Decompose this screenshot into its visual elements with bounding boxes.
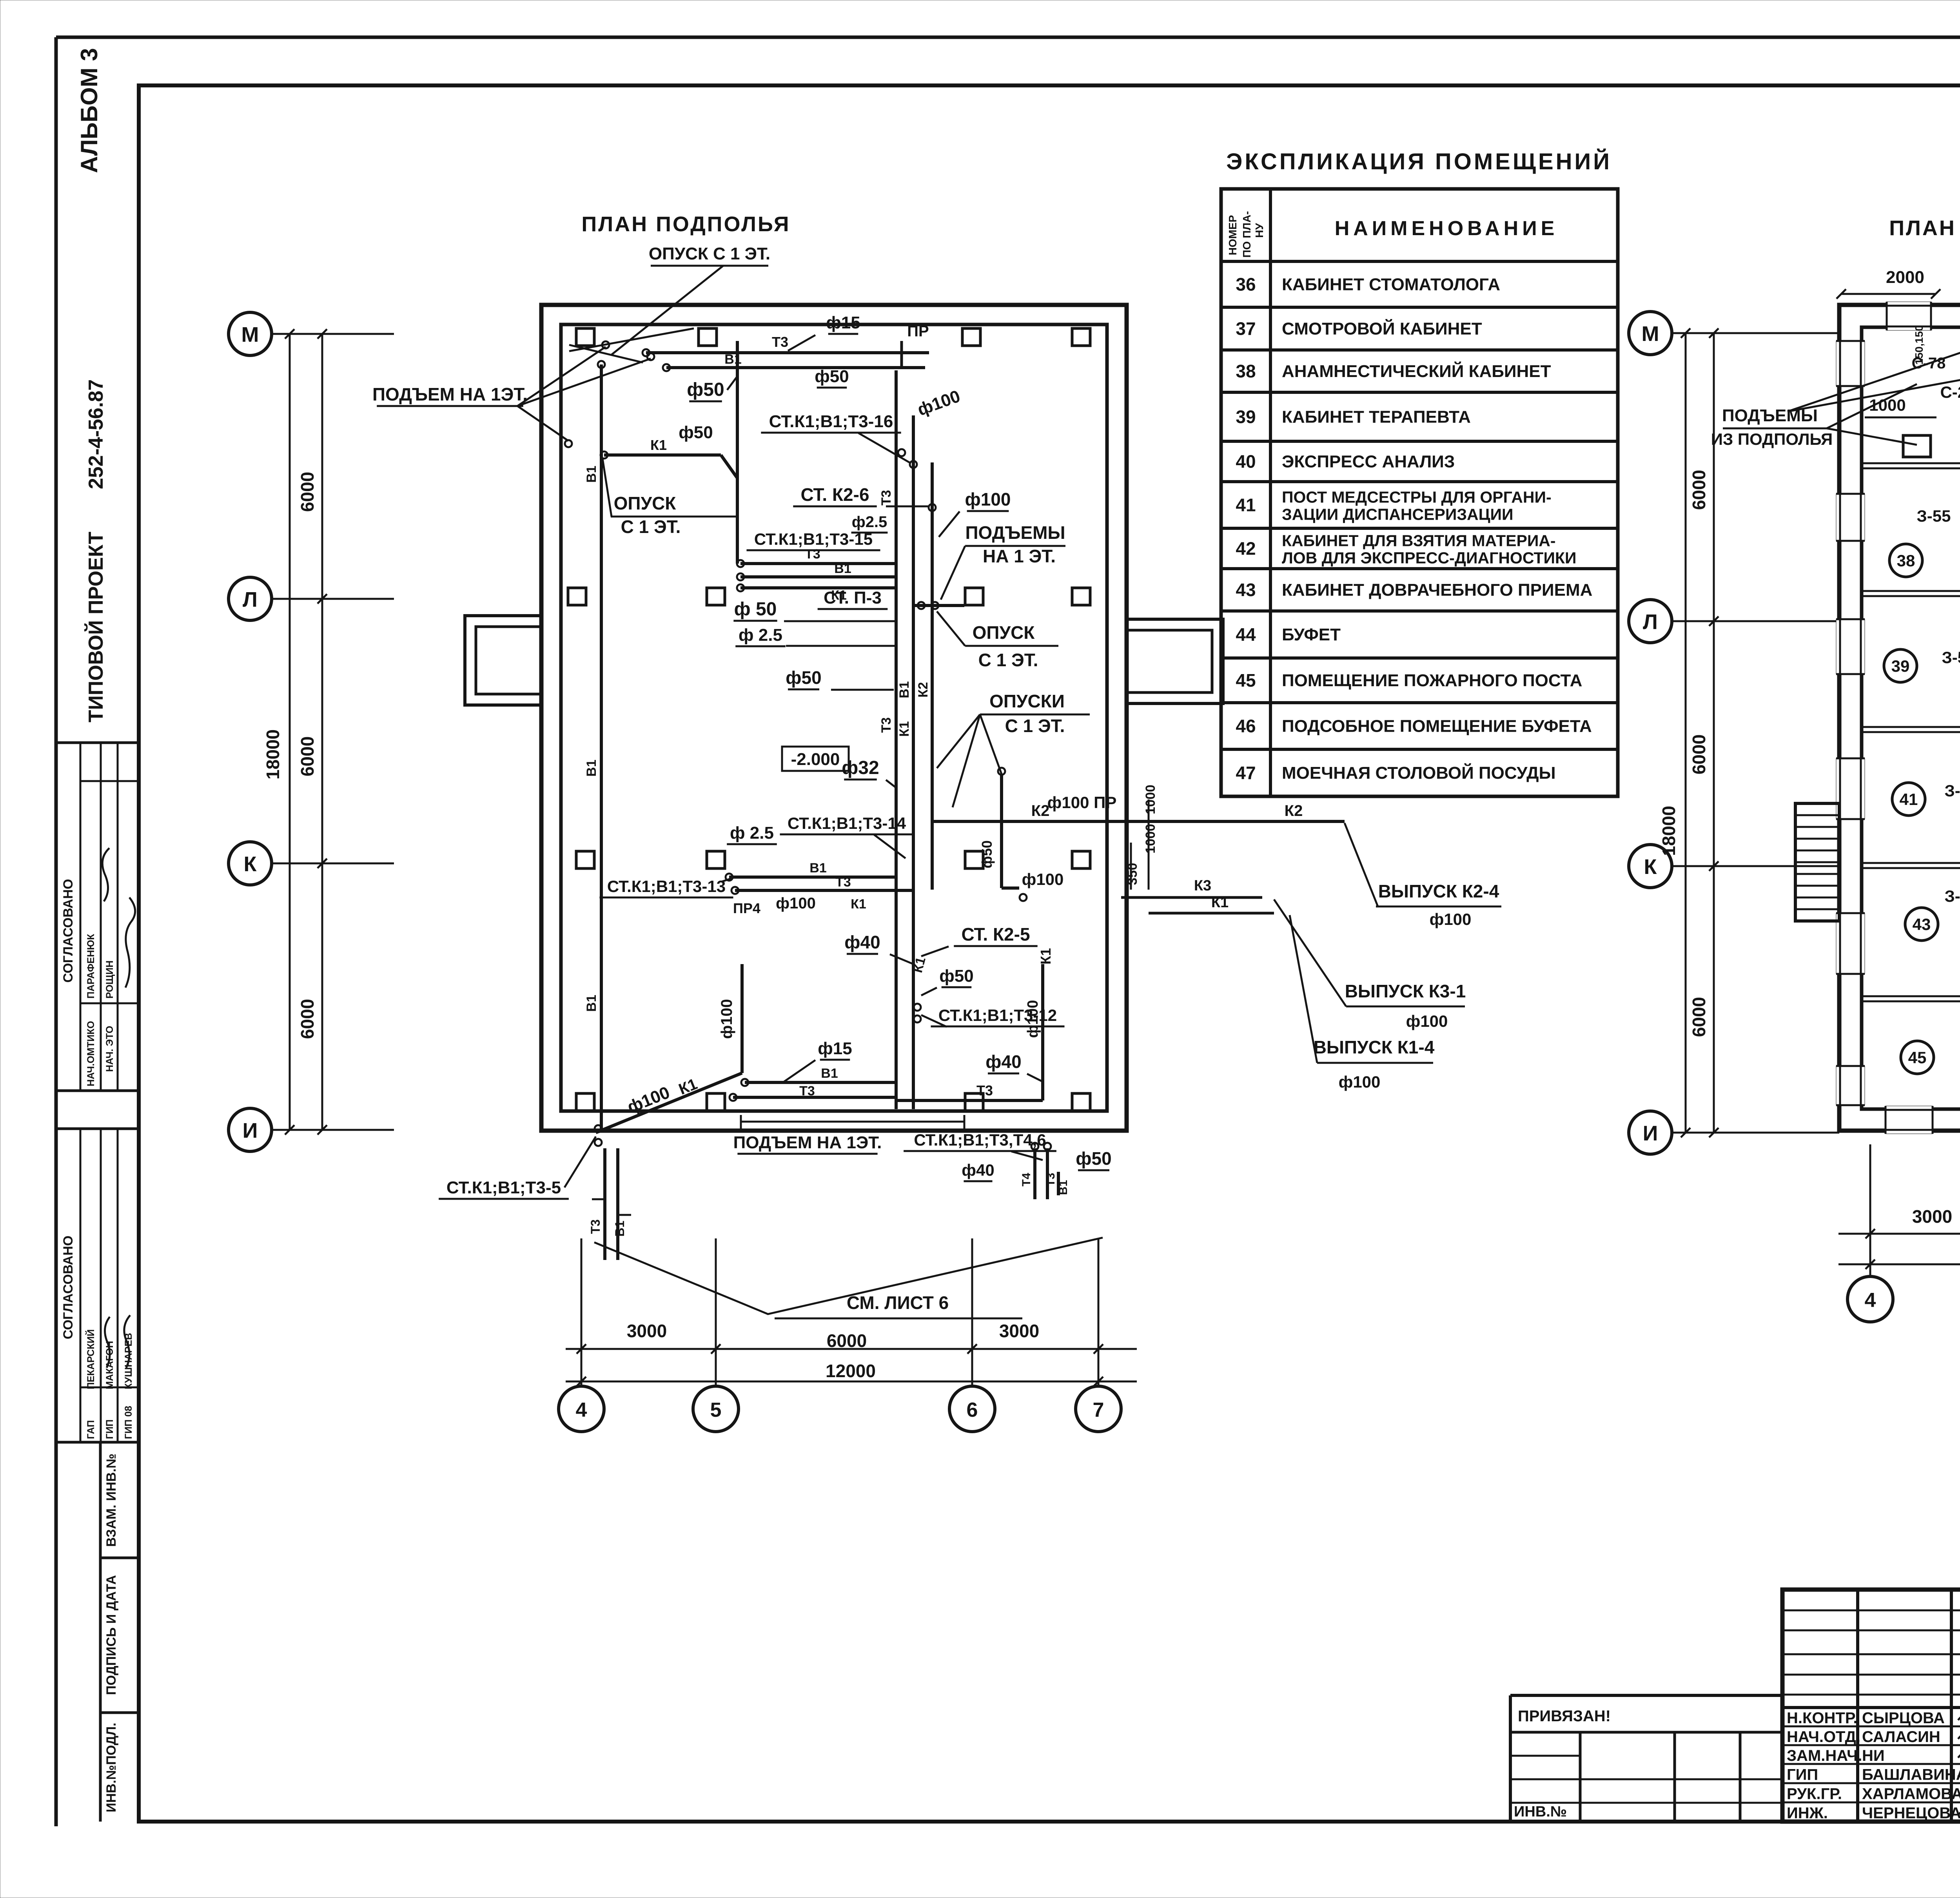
center pipe risers <box>895 370 898 1109</box>
svg-text:45: 45 <box>1236 670 1256 691</box>
svg-text:ГИП: ГИП <box>104 1419 115 1439</box>
partition row 4 <box>1862 862 1960 864</box>
svg-text:44: 44 <box>1236 624 1256 645</box>
svg-text:ОПУСКИ: ОПУСКИ <box>989 691 1065 711</box>
svg-text:ОПУСК С 1 ЭТ.: ОПУСК С 1 ЭТ. <box>649 244 770 263</box>
sign row РУК.ГР. ХАРЛАМОВА <box>1782 1782 1960 1784</box>
exit pipe K1 <box>1149 912 1274 915</box>
CM.ЛИСТ 6 leader <box>594 1238 1103 1314</box>
svg-text:ПОСТ МЕДСЕСТРЫ ДЛЯ ОРГАНИ-: ПОСТ МЕДСЕСТРЫ ДЛЯ ОРГАНИ- <box>1282 488 1552 506</box>
svg-text:ф100: ф100 <box>718 999 735 1039</box>
svg-text:Т3: Т3 <box>805 547 820 562</box>
svg-text:39: 39 <box>1236 407 1256 427</box>
svg-text:СЫРЦОВА: СЫРЦОВА <box>1862 1709 1945 1727</box>
svg-text:В1: В1 <box>897 681 912 698</box>
svg-text:З-55: З-55 <box>1942 648 1960 667</box>
svg-text:ЗАЦИИ ДИСПАНСЕРИЗАЦИИ: ЗАЦИИ ДИСПАНСЕРИЗАЦИИ <box>1282 506 1514 524</box>
axis Л right plan <box>1629 600 1672 643</box>
svg-text:САЛАСИН: САЛАСИН <box>1862 1728 1940 1746</box>
svg-text:И: И <box>243 1119 258 1142</box>
svg-text:38: 38 <box>1897 551 1915 570</box>
svg-text:ОПУСК: ОПУСК <box>973 622 1035 643</box>
svg-text:ПОМЕЩЕНИЕ ПОЖАРНОГО ПОСТА: ПОМЕЩЕНИЕ ПОЖАРНОГО ПОСТА <box>1282 671 1582 690</box>
svg-text:НУ: НУ <box>1253 223 1265 238</box>
svg-text:ф50: ф50 <box>1076 1148 1111 1169</box>
room 38 <box>1889 544 1922 577</box>
svg-text:18000: 18000 <box>1659 806 1679 856</box>
svg-text:43: 43 <box>1236 580 1256 600</box>
svg-text:С 1 ЭТ.: С 1 ЭТ. <box>978 650 1038 670</box>
svg-text:42: 42 <box>1236 538 1256 559</box>
svg-text:Т4: Т4 <box>1020 1173 1033 1186</box>
svg-text:ПЕКАРСКИЙ: ПЕКАРСКИЙ <box>85 1329 96 1389</box>
svg-text:СТ. К2-5: СТ. К2-5 <box>961 924 1030 944</box>
svg-text:ИНЖ.: ИНЖ. <box>1787 1805 1828 1822</box>
svg-text:ИНВ.№: ИНВ.№ <box>1514 1804 1567 1820</box>
svg-text:6000: 6000 <box>1689 734 1709 774</box>
svg-text:ф100: ф100 <box>1022 870 1064 888</box>
sidebar approval table 1 <box>56 1089 139 1092</box>
svg-text:МОЕЧНАЯ СТОЛОВОЙ ПОСУДЫ: МОЕЧНАЯ СТОЛОВОЙ ПОСУДЫ <box>1282 763 1556 783</box>
svg-text:ЭКСПЛИКАЦИЯ ПОМЕЩЕНИЙ: ЭКСПЛИКАЦИЯ ПОМЕЩЕНИЙ <box>1226 149 1612 174</box>
pipe B1 vertical west <box>600 364 603 1133</box>
svg-text:ф15: ф15 <box>818 1039 852 1058</box>
svg-text:1000: 1000 <box>1143 824 1158 854</box>
svg-text:ПАРАФЕНЮК: ПАРАФЕНЮК <box>85 934 96 999</box>
svg-text:К2: К2 <box>1285 802 1303 819</box>
svg-text:3000: 3000 <box>1912 1206 1952 1227</box>
table row 38 <box>1221 391 1618 394</box>
svg-text:НИ: НИ <box>1862 1747 1885 1764</box>
partition row 2 <box>1862 590 1960 592</box>
svg-text:12000: 12000 <box>826 1361 876 1381</box>
svg-text:40: 40 <box>1236 451 1256 472</box>
axis М left plan <box>229 312 272 355</box>
svg-text:43: 43 <box>1913 915 1931 934</box>
svg-text:Т3: Т3 <box>772 334 788 350</box>
bottom east run T3 <box>896 1099 1043 1102</box>
svg-text:С-28: С-28 <box>1940 383 1960 401</box>
column footprints <box>576 328 594 346</box>
right plan dim chain <box>1713 333 1715 1133</box>
svg-text:С 1 ЭТ.: С 1 ЭТ. <box>621 517 681 537</box>
svg-text:КАБИНЕТ ДОВРАЧЕБНОГО ПРИЕМА: КАБИНЕТ ДОВРАЧЕБНОГО ПРИЕМА <box>1282 580 1592 600</box>
svg-text:И: И <box>1643 1122 1658 1145</box>
svg-text:6000: 6000 <box>297 472 318 512</box>
title block frame <box>1782 1590 1960 1822</box>
bottom pipe runs <box>745 1081 896 1084</box>
axis circles 4 5 6 7 right plan <box>1847 1276 1893 1322</box>
svg-text:КАБИНЕТ ТЕРАПЕВТА: КАБИНЕТ ТЕРАПЕВТА <box>1282 408 1471 427</box>
svg-text:РУК.ГР.: РУК.ГР. <box>1787 1786 1842 1803</box>
svg-text:СМОТРОВОЙ КАБИНЕТ: СМОТРОВОЙ КАБИНЕТ <box>1282 319 1482 339</box>
bottom dim lines left plan <box>566 1348 1137 1350</box>
svg-text:252-4-56.87: 252-4-56.87 <box>85 379 107 489</box>
svg-text:ПОДЪЕМ НА 1ЭТ.: ПОДЪЕМ НА 1ЭТ. <box>733 1133 882 1152</box>
svg-text:ПЛАН 1 ЭТАЖА: ПЛАН 1 ЭТАЖА <box>1889 216 1960 240</box>
svg-text:ПЛАН ПОДПОЛЬЯ: ПЛАН ПОДПОЛЬЯ <box>581 212 790 236</box>
svg-text:С 1 ЭТ.: С 1 ЭТ. <box>1005 716 1065 736</box>
svg-text:ф100: ф100 <box>1339 1073 1381 1091</box>
svg-text:ГАП: ГАП <box>85 1420 96 1439</box>
svg-text:41: 41 <box>1236 495 1256 515</box>
svg-text:Т3: Т3 <box>588 1219 603 1234</box>
svg-text:ГИП: ГИП <box>1787 1766 1818 1784</box>
table row 40 <box>1221 480 1618 483</box>
svg-text:СОГЛАСОВАНО: СОГЛАСОВАНО <box>61 1236 76 1340</box>
bottom dim lines right plan <box>1838 1233 1960 1235</box>
table row 45 <box>1221 701 1618 704</box>
svg-text:СТ.К1;В1;Т3-5: СТ.К1;В1;Т3-5 <box>446 1178 561 1197</box>
exit pipe K3 <box>1121 896 1262 899</box>
axis И left plan <box>229 1108 272 1151</box>
svg-text:В1: В1 <box>1057 1180 1070 1195</box>
svg-text:ЭКСПРЕСС АНАЛИЗ: ЭКСПРЕСС АНАЛИЗ <box>1282 452 1455 471</box>
pipe west drop <box>736 410 739 564</box>
right vestibule bump <box>1127 619 1223 703</box>
table row 43 <box>1221 609 1618 613</box>
svg-text:18000: 18000 <box>263 729 283 780</box>
svg-text:7: 7 <box>1093 1399 1104 1421</box>
svg-text:К1: К1 <box>650 437 667 453</box>
room 45 <box>1901 1041 1934 1074</box>
table row 41 <box>1221 527 1618 530</box>
svg-text:НАЧ.ОТД.: НАЧ.ОТД. <box>1787 1728 1860 1746</box>
svg-text:ВЫПУСК К3-1: ВЫПУСК К3-1 <box>1345 981 1466 1001</box>
svg-text:К1: К1 <box>897 721 912 737</box>
stairs left exterior <box>1795 803 1839 921</box>
svg-text:Т3: Т3 <box>799 1084 815 1099</box>
sign row НАЧ.ОТД. САЛАСИН <box>1782 1726 1960 1728</box>
svg-text:СТ.К1;В1;Т3-14: СТ.К1;В1;Т3-14 <box>788 814 906 832</box>
svg-text:36: 36 <box>1236 274 1256 295</box>
corridor walls <box>1862 462 1960 464</box>
svg-text:Т3: Т3 <box>1044 1173 1057 1186</box>
svg-text:СТ.К1;В1;Т3,Т4,6: СТ.К1;В1;Т3,Т4,6 <box>914 1131 1046 1149</box>
signature squiggle <box>125 897 135 988</box>
windows left wall <box>1836 341 1865 386</box>
svg-text:ф50: ф50 <box>679 423 713 442</box>
svg-text:К1: К1 <box>851 897 866 912</box>
svg-text:ф100: ф100 <box>1430 910 1472 928</box>
axis М right plan <box>1629 312 1672 355</box>
svg-text:ф 50: ф 50 <box>734 599 777 620</box>
entry box top left <box>1903 435 1931 457</box>
axis verticals to circles <box>581 1238 583 1376</box>
axis Л left plan <box>229 577 272 620</box>
right plan outer wall <box>1839 305 1960 1131</box>
K2 hook <box>1000 774 1003 888</box>
svg-text:ЧЕРНЕЦОВА: ЧЕРНЕЦОВА <box>1862 1805 1960 1822</box>
svg-text:5: 5 <box>710 1399 722 1421</box>
svg-text:КАБИНЕТ ДЛЯ ВЗЯТИЯ МАТЕРИА-: КАБИНЕТ ДЛЯ ВЗЯТИЯ МАТЕРИА- <box>1282 532 1556 550</box>
svg-text:4: 4 <box>576 1399 587 1421</box>
table row 36 <box>1221 306 1618 309</box>
svg-text:КАБИНЕТ СТОМАТОЛОГА: КАБИНЕТ СТОМАТОЛОГА <box>1282 275 1500 294</box>
svg-text:М: М <box>241 323 259 346</box>
axis И right plan <box>1629 1111 1672 1154</box>
svg-text:Т3: Т3 <box>835 875 851 890</box>
partition row 3 <box>1862 726 1960 728</box>
table row 46 <box>1221 748 1618 751</box>
svg-text:41: 41 <box>1900 790 1918 809</box>
svg-text:ВЗАМ. ИНВ.№: ВЗАМ. ИНВ.№ <box>104 1454 119 1547</box>
svg-text:3000: 3000 <box>627 1321 667 1341</box>
west low pipe run <box>729 876 896 879</box>
svg-text:В1: В1 <box>613 1221 627 1237</box>
svg-text:АНАМНЕСТИЧЕСКИЙ КАБИНЕТ: АНАМНЕСТИЧЕСКИЙ КАБИНЕТ <box>1282 361 1551 381</box>
svg-text:ПР: ПР <box>907 323 929 340</box>
room 43 <box>1905 908 1938 941</box>
table row 42 <box>1221 567 1618 570</box>
leaders top left <box>1788 345 1960 412</box>
sign row ИНЖ. ЧЕРНЕЦОВА <box>1782 1802 1960 1804</box>
svg-text:В1: В1 <box>821 1066 838 1081</box>
svg-text:К1: К1 <box>1211 894 1229 911</box>
svg-text:СТ.К1;В1;Т3-13: СТ.К1;В1;Т3-13 <box>607 877 726 896</box>
axis К right plan <box>1629 845 1672 888</box>
svg-text:ПОДЪЕМЫ: ПОДЪЕМЫ <box>965 522 1065 543</box>
svg-text:ХАРЛАМОВА: ХАРЛАМОВА <box>1862 1786 1960 1803</box>
svg-text:ПР4: ПР4 <box>733 900 760 916</box>
svg-text:ПОДСОБНОЕ ПОМЕЩЕНИЕ БУФЕТА: ПОДСОБНОЕ ПОМЕЩЕНИЕ БУФЕТА <box>1282 717 1592 736</box>
svg-text:ф15: ф15 <box>826 313 860 332</box>
svg-text:ф2.5: ф2.5 <box>852 513 887 531</box>
svg-text:СТ. К2-6: СТ. К2-6 <box>800 484 869 505</box>
svg-text:М: М <box>1642 322 1659 346</box>
room 39 <box>1884 649 1917 682</box>
svg-text:ПОДПИСЬ И ДАТА: ПОДПИСЬ И ДАТА <box>104 1575 119 1695</box>
svg-text:НАЧ. ЭТО: НАЧ. ЭТО <box>104 1026 115 1072</box>
svg-text:ф 2.5: ф 2.5 <box>739 625 782 645</box>
svg-text:ПО ПЛА-: ПО ПЛА- <box>1241 211 1253 258</box>
SW diagonal pipe f100 K1 <box>596 1073 742 1133</box>
bottom stubs T3 B1 <box>603 1148 606 1260</box>
svg-text:ПРИВЯЗАН!: ПРИВЯЗАН! <box>1518 1708 1611 1725</box>
svg-text:6000: 6000 <box>297 736 318 776</box>
svg-text:СТ. П-3: СТ. П-3 <box>824 588 882 607</box>
svg-text:47: 47 <box>1236 763 1256 783</box>
svg-text:В1: В1 <box>584 995 599 1012</box>
svg-text:Т3: Т3 <box>879 490 894 506</box>
svg-text:ф100: ф100 <box>1406 1012 1448 1030</box>
svg-text:НОМЕР: НОМЕР <box>1227 215 1239 256</box>
mid pipe run <box>740 562 896 565</box>
partition row 5 <box>1862 995 1960 997</box>
svg-text:К3: К3 <box>1194 877 1211 894</box>
svg-text:ф40: ф40 <box>962 1161 994 1179</box>
pipe K1 west run <box>604 453 721 457</box>
sidebar cell ВЗАМ.ИНВ.№ <box>99 1442 102 1822</box>
svg-text:Т3: Т3 <box>879 717 894 733</box>
svg-text:-2.000: -2.000 <box>791 750 840 769</box>
table row 39 <box>1221 440 1618 443</box>
svg-text:Т3: Т3 <box>976 1082 993 1099</box>
bottom right stubs <box>1033 1148 1036 1199</box>
svg-text:ф 2.5: ф 2.5 <box>730 823 774 843</box>
svg-text:ф50: ф50 <box>815 367 849 386</box>
svg-text:ф100 ПР: ф100 ПР <box>1047 793 1117 812</box>
svg-text:45: 45 <box>1908 1048 1927 1067</box>
svg-text:ф100: ф100 <box>965 489 1011 509</box>
svg-text:РОЩИН: РОЩИН <box>104 961 115 999</box>
table row 44 <box>1221 656 1618 660</box>
svg-text:ф50: ф50 <box>687 379 724 400</box>
right plan dim 18000 <box>1685 333 1687 1133</box>
svg-text:ИЗ ПОДПОЛЬЯ: ИЗ ПОДПОЛЬЯ <box>1711 430 1833 448</box>
svg-text:37: 37 <box>1236 319 1256 339</box>
svg-text:39: 39 <box>1891 657 1910 675</box>
svg-text:ф50: ф50 <box>786 667 821 688</box>
top-left diagonal connectors <box>569 345 643 363</box>
svg-text:ПОДЪЕМ НА 1ЭТ.: ПОДЪЕМ НА 1ЭТ. <box>372 384 528 404</box>
svg-text:К2: К2 <box>916 682 931 698</box>
svg-text:З-55: З-55 <box>1916 507 1951 525</box>
svg-text:4: 4 <box>1865 1289 1876 1312</box>
room 41 <box>1892 783 1925 816</box>
svg-text:6: 6 <box>967 1399 978 1421</box>
left plan inner wall <box>561 324 1107 1111</box>
svg-text:В1: В1 <box>809 861 826 876</box>
outer page border <box>56 36 1960 39</box>
svg-text:К1: К1 <box>1038 948 1054 964</box>
svg-text:38: 38 <box>1236 361 1256 381</box>
svg-text:БАШЛАВИНА: БАШЛАВИНА <box>1862 1766 1960 1784</box>
bracket below building <box>741 1121 964 1123</box>
left vestibule bump <box>465 616 541 705</box>
sidebar approval table 2 <box>56 1128 139 1130</box>
svg-text:СТ.К1;В1;Т3-15: СТ.К1;В1;Т3-15 <box>754 530 873 548</box>
svg-text:К: К <box>1644 855 1657 879</box>
elevation -2.000 <box>782 747 849 771</box>
pipe short mid <box>913 604 964 607</box>
svg-text:6000: 6000 <box>1689 470 1709 510</box>
windows bottom wall <box>1886 1106 1933 1134</box>
svg-text:ВЫПУСК К2-4: ВЫПУСК К2-4 <box>1378 881 1499 901</box>
svg-text:СТ.К1;В1;Т3-16: СТ.К1;В1;Т3-16 <box>769 412 893 431</box>
pipe top run T3 <box>646 351 929 354</box>
svg-text:ф50: ф50 <box>979 840 995 868</box>
svg-text:ф50: ф50 <box>939 966 973 986</box>
table header <box>1221 260 1618 263</box>
left plan dim chain 6000x3 <box>321 334 323 1130</box>
left plan outer wall <box>541 305 1127 1131</box>
svg-text:ТИПОВОЙ ПРОЕКТ: ТИПОВОЙ ПРОЕКТ <box>84 531 107 722</box>
svg-text:Н.КОНТР.: Н.КОНТР. <box>1787 1709 1858 1727</box>
right plan inner wall <box>1862 327 1960 1109</box>
svg-text:ЗАМ.НАЧ.: ЗАМ.НАЧ. <box>1787 1747 1862 1764</box>
svg-text:ф40: ф40 <box>985 1051 1021 1072</box>
top dim 2000 <box>1841 293 1936 295</box>
K2 branch east <box>932 820 1345 823</box>
signatures <box>1958 1706 1960 1722</box>
pipe top run B1 <box>666 366 925 369</box>
svg-text:В1: В1 <box>584 760 599 776</box>
svg-text:ф100: ф100 <box>776 895 816 912</box>
svg-text:ГИП 08: ГИП 08 <box>123 1406 134 1439</box>
svg-text:ф32: ф32 <box>842 758 879 778</box>
svg-text:К2: К2 <box>1031 802 1050 819</box>
svg-text:ф40: ф40 <box>844 932 880 952</box>
sign row ЗАМ.НАЧ. НИ <box>1782 1744 1960 1746</box>
svg-text:В1: В1 <box>834 561 851 576</box>
svg-text:В1: В1 <box>724 352 741 367</box>
svg-text:Л: Л <box>1643 610 1658 634</box>
svg-text:НАЧ.ОМТИКО: НАЧ.ОМТИКО <box>85 1021 96 1086</box>
svg-text:БУФЕТ: БУФЕТ <box>1282 625 1341 644</box>
svg-text:ОПУСК: ОПУСК <box>614 493 677 513</box>
svg-text:НАИМЕНОВАНИЕ: НАИМЕНОВАНИЕ <box>1335 217 1559 240</box>
windows top wall <box>1887 302 1931 330</box>
sign row ГИП БАШЛАВИНА <box>1782 1763 1960 1765</box>
svg-text:К: К <box>244 852 257 876</box>
svg-text:З-55: З-55 <box>1944 781 1960 800</box>
svg-text:ВЫПУСК К1-4: ВЫПУСК К1-4 <box>1314 1037 1435 1057</box>
left plan dim line 18000 <box>289 334 291 1130</box>
svg-text:Л: Л <box>243 588 258 611</box>
svg-text:6000: 6000 <box>1689 997 1709 1037</box>
sidebar cell ПОДПИСЬ И ДАТА <box>100 1711 139 1714</box>
svg-text:46: 46 <box>1236 716 1256 736</box>
svg-text:1000: 1000 <box>1869 396 1906 414</box>
svg-text:В1: В1 <box>584 466 599 482</box>
sidebar divider <box>56 741 139 744</box>
axis К left plan <box>229 842 272 885</box>
axis circles 4 5 6 7 left plan <box>559 1386 604 1432</box>
privyazan table <box>1510 1694 1782 1697</box>
svg-text:350: 350 <box>1125 863 1140 885</box>
svg-text:ф100: ф100 <box>1025 1000 1041 1038</box>
explication table frame <box>1221 189 1618 796</box>
svg-text:НА 1 ЭТ.: НА 1 ЭТ. <box>983 546 1056 566</box>
svg-text:АЛЬБОМ 3: АЛЬБОМ 3 <box>76 48 102 173</box>
table row 37 <box>1221 348 1618 352</box>
svg-text:ЛОВ ДЛЯ ЭКСПРЕСС-ДИАГНОСТИКИ: ЛОВ ДЛЯ ЭКСПРЕСС-ДИАГНОСТИКИ <box>1282 549 1576 567</box>
svg-text:6000: 6000 <box>297 999 318 1039</box>
title block upper grid <box>1782 1610 1960 1612</box>
svg-text:3000: 3000 <box>999 1321 1039 1341</box>
svg-text:1000: 1000 <box>1143 785 1158 814</box>
svg-text:З-55: З-55 <box>1944 887 1960 905</box>
svg-text:СМ. ЛИСТ 6: СМ. ЛИСТ 6 <box>847 1293 949 1313</box>
svg-text:СОГЛАСОВАНО: СОГЛАСОВАНО <box>61 879 76 983</box>
pipe stub f50 <box>736 341 739 410</box>
svg-text:6000: 6000 <box>827 1331 867 1351</box>
svg-text:ИНВ.№ПОДЛ.: ИНВ.№ПОДЛ. <box>104 1723 119 1813</box>
svg-text:2000: 2000 <box>1886 268 1924 287</box>
